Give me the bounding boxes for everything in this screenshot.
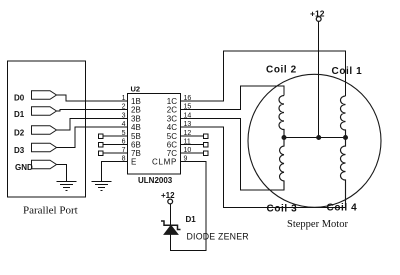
svg-text:E: E bbox=[131, 158, 136, 167]
svg-text:Coil 3: Coil 3 bbox=[267, 204, 298, 215]
wire pin 13 to coil 4 bottom bbox=[181, 127, 346, 208]
svg-text:12: 12 bbox=[184, 130, 192, 137]
svg-text:11: 11 bbox=[184, 138, 191, 145]
diode D1 zener cathode bar bbox=[161, 221, 181, 230]
pin 12 open terminal bbox=[204, 134, 209, 139]
svg-text:Stepper Motor: Stepper Motor bbox=[287, 219, 348, 230]
parallel port box bbox=[8, 61, 86, 197]
wire pin 8 E to ground bbox=[102, 162, 128, 182]
connector pin D0 bbox=[32, 91, 57, 100]
svg-text:U2: U2 bbox=[131, 85, 141, 94]
svg-text:D3: D3 bbox=[14, 146, 25, 155]
pin 12 stub bbox=[181, 135, 204, 137]
wire pin 9 CLMP to diode D1 bbox=[171, 162, 207, 251]
pin 7 stub bbox=[103, 152, 128, 154]
wire D1 to pin 2 bbox=[57, 110, 128, 112]
svg-text:DIODE ZENER: DIODE ZENER bbox=[187, 232, 249, 242]
wire GND to ground bbox=[57, 165, 67, 182]
node junction coil2/coil3 bbox=[282, 136, 286, 140]
+12 diode supply terminal bbox=[168, 199, 173, 204]
wire motor center rail bbox=[284, 137, 346, 139]
svg-text:ULN2003: ULN2003 bbox=[138, 176, 173, 185]
svg-text:7: 7 bbox=[122, 147, 126, 154]
pin 11 stub bbox=[181, 144, 204, 146]
inductor coil 2 and coil 3 bbox=[279, 96, 284, 191]
svg-text:4C: 4C bbox=[167, 123, 177, 132]
pin 6 stub bbox=[103, 144, 128, 146]
wire pin 16 to coil 1 top bbox=[181, 51, 346, 101]
svg-text:4B: 4B bbox=[131, 123, 141, 132]
connector pin D1 bbox=[32, 107, 57, 116]
svg-text:16: 16 bbox=[184, 95, 192, 102]
pin 10 stub bbox=[181, 152, 204, 154]
pin 6 open terminal bbox=[99, 142, 104, 147]
svg-text:6: 6 bbox=[122, 138, 126, 145]
svg-text:+12: +12 bbox=[161, 191, 175, 200]
svg-text:9: 9 bbox=[184, 155, 188, 162]
ground (parallel port GND) bbox=[57, 182, 77, 191]
svg-text:D1: D1 bbox=[186, 215, 197, 224]
svg-text:1: 1 bbox=[122, 95, 126, 102]
svg-text:Coil 1: Coil 1 bbox=[332, 66, 363, 77]
svg-text:GND: GND bbox=[15, 163, 33, 172]
ground (E pin) bbox=[92, 182, 112, 191]
node junction coil1/coil4 bbox=[344, 136, 348, 140]
diode D1 zener triangle bbox=[164, 226, 177, 235]
svg-text:15: 15 bbox=[184, 103, 192, 110]
wire +12 to diode D1 bbox=[169, 204, 171, 225]
svg-text:13: 13 bbox=[184, 121, 192, 128]
svg-text:D1: D1 bbox=[14, 110, 25, 119]
svg-text:2: 2 bbox=[122, 103, 126, 110]
svg-text:10: 10 bbox=[184, 147, 192, 154]
wire D2 to pin 3 bbox=[57, 119, 128, 131]
pin 11 open terminal bbox=[204, 142, 209, 147]
stepper motor circle bbox=[248, 74, 381, 207]
inductor coil 1 and coil 4 bbox=[341, 96, 346, 208]
wire D3 to pin 4 bbox=[57, 127, 128, 148]
pin 10 open terminal bbox=[204, 151, 209, 156]
node junction +12 center bbox=[317, 136, 321, 140]
wire +12 supply to motor center bbox=[318, 22, 320, 138]
svg-text:14: 14 bbox=[184, 112, 192, 119]
wire pin 15 to coil 2 top bbox=[181, 86, 285, 110]
svg-text:Coil 2: Coil 2 bbox=[266, 65, 297, 76]
svg-text:+12: +12 bbox=[310, 9, 325, 19]
svg-text:2B: 2B bbox=[131, 106, 141, 115]
+12 motor supply terminal bbox=[316, 17, 321, 22]
connector pin D2 bbox=[32, 126, 57, 135]
connector pin GND bbox=[32, 160, 57, 169]
svg-text:CLMP: CLMP bbox=[152, 158, 177, 167]
pin 5 open terminal bbox=[99, 134, 104, 139]
svg-text:D2: D2 bbox=[14, 128, 25, 137]
IC U2 ULN2003 body bbox=[128, 94, 181, 175]
pin 7 open terminal bbox=[99, 151, 104, 156]
pin 5 stub bbox=[103, 135, 128, 137]
svg-text:Coil 4: Coil 4 bbox=[327, 203, 358, 214]
svg-text:4: 4 bbox=[122, 121, 126, 128]
svg-text:2C: 2C bbox=[167, 106, 177, 115]
svg-text:D0: D0 bbox=[14, 93, 25, 102]
svg-text:3: 3 bbox=[122, 112, 126, 119]
svg-text:8: 8 bbox=[122, 155, 126, 162]
svg-text:Parallel Port: Parallel Port bbox=[23, 205, 78, 217]
svg-text:5: 5 bbox=[122, 130, 126, 137]
wire pin 14 to coil 3 bottom bbox=[181, 119, 285, 191]
wire D0 to pin 1 bbox=[57, 95, 128, 101]
connector pin D3 bbox=[32, 143, 57, 152]
